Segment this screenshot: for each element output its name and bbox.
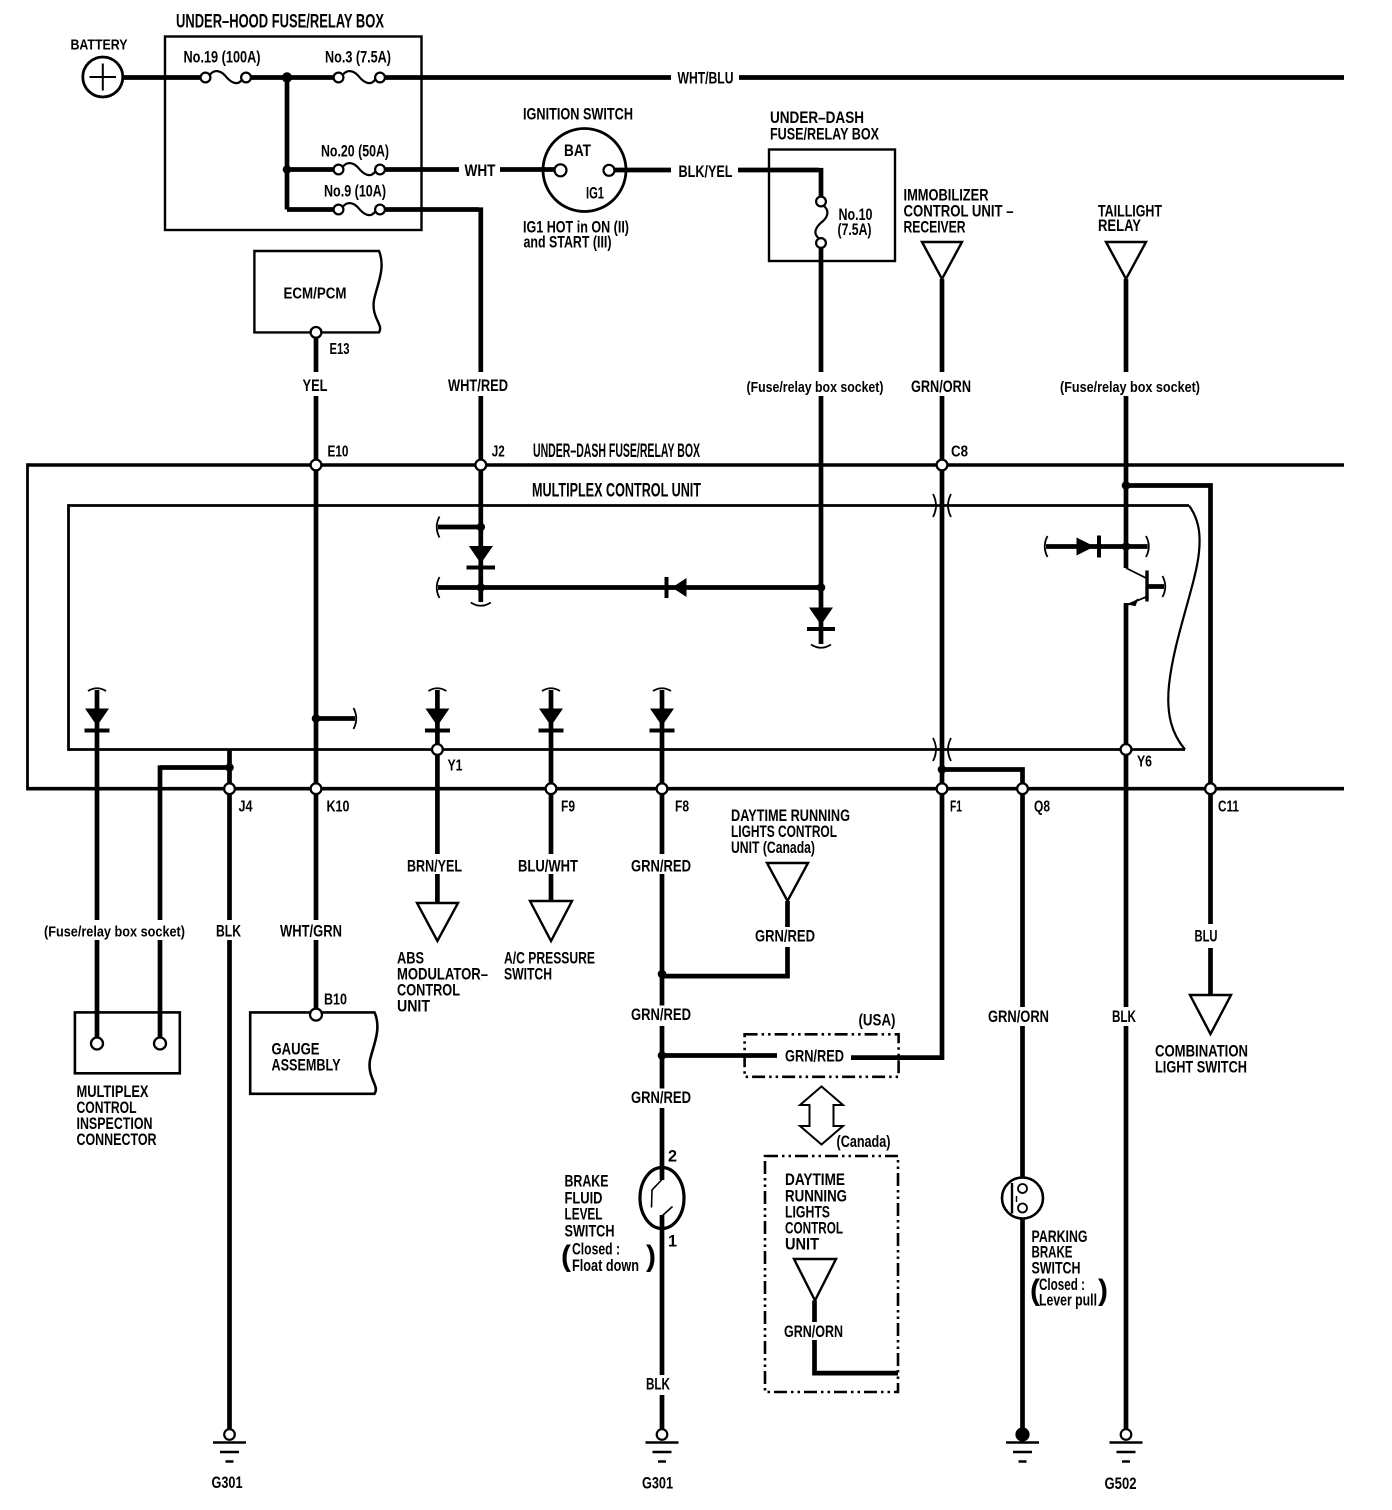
svg-text:IGNITION SWITCH: IGNITION SWITCH <box>523 106 633 124</box>
svg-text:BLK: BLK <box>646 1376 670 1394</box>
svg-text:WHT/RED: WHT/RED <box>448 377 508 395</box>
svg-text:ECM/PCM: ECM/PCM <box>284 286 347 303</box>
svg-text:Y1: Y1 <box>448 758 463 775</box>
svg-text:F1: F1 <box>950 799 962 816</box>
svg-text:BLU: BLU <box>1195 928 1218 946</box>
svg-text:GRN/ORN: GRN/ORN <box>988 1008 1049 1026</box>
svg-text:C11: C11 <box>1218 799 1239 816</box>
svg-text:and START (III): and START (III) <box>524 234 612 252</box>
svg-text:): ) <box>1098 1274 1108 1307</box>
svg-text:BAT: BAT <box>564 142 591 160</box>
svg-text:SWITCH: SWITCH <box>504 966 552 984</box>
svg-text:2: 2 <box>668 1148 677 1166</box>
svg-text:F8: F8 <box>675 799 689 816</box>
svg-text:UNDER–DASH FUSE/RELAY BOX: UNDER–DASH FUSE/RELAY BOX <box>533 441 700 462</box>
svg-text:DAYTIME: DAYTIME <box>785 1171 845 1189</box>
svg-text:SWITCH: SWITCH <box>565 1223 615 1241</box>
svg-text:G301: G301 <box>642 1475 673 1493</box>
svg-text:CONNECTOR: CONNECTOR <box>77 1131 157 1149</box>
svg-text:BLK: BLK <box>1112 1008 1136 1026</box>
svg-text:): ) <box>646 1240 656 1273</box>
svg-text:GRN/RED: GRN/RED <box>785 1048 844 1066</box>
svg-text:No.3 (7.5A): No.3 (7.5A) <box>325 49 391 67</box>
svg-text:GRN/RED: GRN/RED <box>755 928 815 946</box>
svg-text:ASSEMBLY: ASSEMBLY <box>272 1057 341 1075</box>
svg-text:G502: G502 <box>1105 1475 1137 1493</box>
svg-text:BLK/YEL: BLK/YEL <box>679 163 733 181</box>
svg-text:LIGHT SWITCH: LIGHT SWITCH <box>1155 1059 1247 1077</box>
svg-text:B10: B10 <box>324 992 347 1009</box>
svg-text:(USA): (USA) <box>859 1012 896 1030</box>
svg-text:(Canada): (Canada) <box>837 1133 891 1151</box>
svg-text:WHT/BLU: WHT/BLU <box>678 70 734 88</box>
svg-text:K10: K10 <box>327 799 350 816</box>
svg-text:RELAY: RELAY <box>1098 217 1141 235</box>
svg-text:UNDER–HOOD FUSE/RELAY BOX: UNDER–HOOD FUSE/RELAY BOX <box>176 12 384 33</box>
svg-text:GRN/ORN: GRN/ORN <box>784 1323 843 1341</box>
svg-text:(: ( <box>561 1240 571 1273</box>
svg-text:GRN/RED: GRN/RED <box>631 1006 691 1024</box>
svg-text:GRN/RED: GRN/RED <box>631 1089 691 1107</box>
svg-text:WHT: WHT <box>465 162 496 180</box>
svg-text:No.19 (100A): No.19 (100A) <box>184 49 261 67</box>
svg-text:No.20 (50A): No.20 (50A) <box>321 143 389 161</box>
svg-text:1: 1 <box>668 1233 677 1251</box>
svg-text:(: ( <box>1030 1274 1040 1307</box>
svg-text:(7.5A): (7.5A) <box>838 221 872 239</box>
svg-text:Y6: Y6 <box>1137 754 1152 771</box>
svg-text:Float down: Float down <box>572 1257 639 1275</box>
svg-text:J4: J4 <box>239 799 253 816</box>
svg-text:E10: E10 <box>328 444 349 461</box>
svg-text:YEL: YEL <box>303 377 328 395</box>
svg-text:(Fuse/relay box socket): (Fuse/relay box socket) <box>44 925 185 941</box>
svg-text:C8: C8 <box>951 444 968 461</box>
svg-text:(Fuse/relay box socket): (Fuse/relay box socket) <box>747 380 884 396</box>
svg-text:UNIT: UNIT <box>397 998 430 1016</box>
svg-text:LEVEL: LEVEL <box>565 1206 603 1224</box>
svg-text:GRN/RED: GRN/RED <box>631 858 691 876</box>
svg-text:Closed :: Closed : <box>572 1241 620 1259</box>
svg-text:(Fuse/relay box socket): (Fuse/relay box socket) <box>1060 380 1200 396</box>
svg-text:FUSE/RELAY BOX: FUSE/RELAY BOX <box>770 126 879 144</box>
svg-text:BLK: BLK <box>216 923 241 941</box>
svg-text:UNDER–DASH: UNDER–DASH <box>770 109 864 127</box>
svg-text:F9: F9 <box>561 799 575 816</box>
svg-text:No.9 (10A): No.9 (10A) <box>324 183 386 201</box>
svg-text:UNIT (Canada): UNIT (Canada) <box>731 839 815 857</box>
svg-text:MULTIPLEX CONTROL UNIT: MULTIPLEX CONTROL UNIT <box>532 481 701 502</box>
svg-text:BATTERY: BATTERY <box>71 38 128 54</box>
svg-text:J2: J2 <box>492 444 505 461</box>
svg-text:UNIT: UNIT <box>785 1236 819 1254</box>
svg-text:BRN/YEL: BRN/YEL <box>407 858 462 876</box>
svg-text:IG1: IG1 <box>586 185 604 203</box>
svg-text:BLU/WHT: BLU/WHT <box>518 858 578 876</box>
svg-text:Lever pull: Lever pull <box>1039 1292 1097 1310</box>
svg-text:G301: G301 <box>212 1474 243 1492</box>
svg-text:BRAKE: BRAKE <box>565 1173 609 1191</box>
svg-text:WHT/GRN: WHT/GRN <box>280 923 342 941</box>
svg-text:Q8: Q8 <box>1034 799 1050 816</box>
svg-text:RECEIVER: RECEIVER <box>904 219 966 237</box>
svg-text:E13: E13 <box>330 341 350 358</box>
svg-text:GRN/ORN: GRN/ORN <box>911 378 971 396</box>
